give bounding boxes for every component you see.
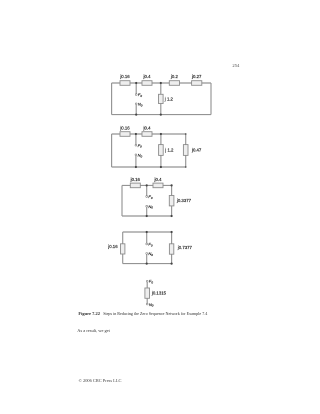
- svg-text:j0.4: j0.4: [154, 177, 163, 182]
- svg-text:j0.3377: j0.3377: [176, 198, 192, 203]
- wire: circuit3 top rail: [122, 184, 172, 186]
- reactance j0.27 circuit1: [191, 74, 202, 85]
- wire: circuit2 fault branch lower: [135, 156, 137, 167]
- svg-text:N0: N0: [138, 152, 143, 158]
- wire: circuit1 fault branch upper: [135, 83, 137, 94]
- svg-text:N0: N0: [148, 204, 153, 210]
- reactance j0.3377 right branch circuit3: [169, 196, 191, 206]
- svg-text:j0.7377: j0.7377: [177, 245, 193, 250]
- node: circuit1 top fault tap: [135, 82, 137, 84]
- wire: circuit4 top rail: [123, 231, 172, 233]
- svg-text:j 1.2: j 1.2: [164, 148, 174, 153]
- svg-text:j0.16: j0.16: [130, 177, 141, 182]
- svg-text:j0.4: j0.4: [143, 74, 152, 79]
- wire: circuit1 left side: [111, 83, 113, 115]
- wire: circuit4 fault branch lower: [146, 254, 148, 263]
- svg-text:j0.16: j0.16: [119, 74, 130, 79]
- node: circuit1 top shunt tap: [160, 82, 162, 84]
- wire: circuit3 left side: [121, 185, 123, 216]
- node: circuit2 top right corner: [185, 133, 187, 135]
- svg-text:F0: F0: [138, 92, 142, 98]
- node: circuit4 top fault tap: [146, 231, 148, 233]
- wire: circuit3 fault branch upper: [146, 185, 148, 195]
- wire: circuit2 shunt branch: [160, 134, 162, 167]
- terminal N0 circuit5: [146, 302, 153, 308]
- wire: circuit2 right side: [185, 134, 187, 167]
- svg-text:N0: N0: [138, 101, 143, 107]
- reactance j0.4 circuit1: [142, 74, 152, 85]
- reactance j1.2 shunt circuit2: [159, 145, 174, 156]
- wire: circuit3 bottom rail: [122, 215, 172, 217]
- node: circuit1 bottom shunt tap: [160, 114, 162, 116]
- svg-text:j0.16: j0.16: [107, 244, 118, 249]
- reactance j0.16 circuit3: [130, 177, 141, 188]
- wire: circuit3 right side: [171, 185, 173, 216]
- reactance j0.4 circuit3: [153, 177, 163, 188]
- svg-text:Figure 7.22: Figure 7.22: [78, 311, 100, 316]
- svg-text:254: 254: [232, 63, 240, 68]
- wire: circuit2 top rail: [112, 133, 186, 135]
- svg-text:j 1.2: j 1.2: [164, 96, 174, 101]
- svg-text:F0: F0: [148, 194, 152, 200]
- wire: circuit1 top rail: [112, 82, 211, 84]
- reactance j0.16 circuit1: [119, 74, 130, 85]
- svg-text:j0.1315: j0.1315: [151, 291, 167, 296]
- svg-text:Steps in Reducing the Zero Seq: Steps in Reducing the Zero Sequence Netw…: [103, 311, 207, 316]
- terminal F0 circuit3: [146, 194, 153, 200]
- reactance j0.4 circuit2: [142, 126, 152, 137]
- svg-text:N0: N0: [149, 302, 154, 308]
- node: circuit3 top fault tap: [146, 184, 148, 186]
- reactance j0.7377 right branch circuit4: [169, 244, 192, 254]
- node: circuit2 bottom fault tap: [135, 166, 137, 168]
- terminal N0 circuit1: [135, 101, 142, 107]
- node: circuit2 top fault tap: [135, 133, 137, 135]
- svg-text:F0: F0: [148, 242, 152, 248]
- wire: circuit4 fault branch upper: [146, 232, 148, 243]
- wire: circuit1 shunt branch: [160, 83, 162, 115]
- terminal N0 circuit3: [146, 204, 153, 210]
- reactance j0.16 circuit2: [119, 126, 130, 137]
- wire: circuit4 right branch: [171, 232, 173, 264]
- terminal F0 circuit2: [135, 143, 142, 149]
- terminal N0 circuit4: [146, 251, 153, 257]
- wire: circuit3 fault branch lower: [146, 207, 148, 216]
- svg-text:j0.2: j0.2: [170, 74, 179, 79]
- node: circuit2 bottom right corner: [185, 166, 187, 168]
- wire: circuit2 bottom rail: [112, 166, 186, 168]
- reactance j0.2 circuit1: [169, 74, 179, 85]
- wire: circuit5 lower lead: [146, 298, 148, 303]
- svg-text:j0.4: j0.4: [143, 126, 152, 131]
- node: circuit2 top shunt tap: [160, 133, 162, 135]
- wire: circuit4 bottom rail: [123, 263, 172, 265]
- svg-text:As a result, we get: As a result, we get: [77, 328, 110, 334]
- wire: circuit1 bottom rail: [112, 114, 211, 116]
- node: circuit4 bottom fault tap: [146, 263, 148, 265]
- wire: circuit1 fault branch lower: [135, 105, 137, 115]
- wire: circuit5 upper lead: [146, 282, 148, 288]
- terminal N0 circuit2: [135, 152, 142, 158]
- svg-text:j0.27: j0.27: [191, 74, 202, 79]
- wire: circuit2 fault branch upper: [135, 134, 137, 144]
- svg-text:N0: N0: [148, 251, 153, 257]
- reactance j0.47 right branch circuit2: [183, 145, 202, 156]
- node: circuit3 bottom right corner: [171, 215, 173, 217]
- figure caption: [78, 311, 207, 316]
- reactance j0.16 left branch circuit4: [107, 244, 125, 254]
- wire: circuit2 left side: [111, 134, 113, 167]
- node: circuit2 bottom shunt tap: [160, 166, 162, 168]
- terminal F0 circuit4: [146, 242, 153, 248]
- svg-text:j0.16: j0.16: [119, 126, 130, 131]
- node: circuit1 bottom fault tap: [135, 114, 137, 116]
- reactance j0.1315 circuit5: [145, 288, 167, 298]
- node: circuit3 bottom fault tap: [146, 215, 148, 217]
- reactance j1.2 shunt circuit1: [159, 94, 174, 103]
- node: circuit4 top right: [171, 231, 173, 233]
- wire: circuit4 left branch: [122, 232, 124, 264]
- node: circuit3 top right corner: [171, 184, 173, 186]
- terminal F0 circuit1: [135, 92, 142, 98]
- svg-text:j0.47: j0.47: [191, 148, 202, 153]
- svg-text:F0: F0: [138, 143, 142, 149]
- terminal F0 circuit5: [146, 279, 153, 285]
- svg-text:F0: F0: [149, 279, 153, 285]
- node: circuit4 bottom right: [171, 263, 173, 265]
- wire: circuit1 right side: [210, 83, 212, 115]
- svg-text:© 2006 CRC Press LLC: © 2006 CRC Press LLC: [79, 378, 122, 383]
